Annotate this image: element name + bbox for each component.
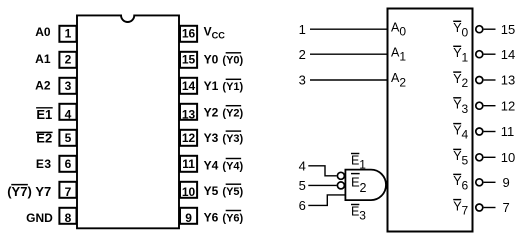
svg-text:9: 9 bbox=[503, 175, 510, 190]
svg-text:2: 2 bbox=[299, 47, 306, 62]
svg-text:2: 2 bbox=[399, 75, 406, 89]
svg-text:(Y5): (Y5) bbox=[222, 186, 243, 198]
svg-text:2: 2 bbox=[360, 181, 367, 195]
svg-text:A1: A1 bbox=[35, 52, 51, 66]
svg-text:(Y4): (Y4) bbox=[222, 160, 243, 172]
svg-text:1: 1 bbox=[65, 27, 72, 41]
svg-text:Y6: Y6 bbox=[204, 210, 219, 224]
svg-text:13: 13 bbox=[501, 73, 515, 88]
svg-text:15: 15 bbox=[182, 53, 196, 67]
svg-text:Y2: Y2 bbox=[204, 106, 219, 120]
svg-text:15: 15 bbox=[501, 22, 515, 37]
svg-text:5: 5 bbox=[65, 131, 72, 145]
svg-text:11: 11 bbox=[501, 124, 515, 139]
svg-text:3: 3 bbox=[359, 209, 366, 223]
svg-text:4: 4 bbox=[299, 159, 306, 174]
svg-text:(Y3): (Y3) bbox=[222, 133, 243, 145]
svg-text:E1: E1 bbox=[36, 107, 52, 122]
svg-text:4: 4 bbox=[462, 128, 469, 142]
svg-text:6: 6 bbox=[65, 157, 72, 171]
svg-text:8: 8 bbox=[65, 211, 72, 225]
svg-text:A2: A2 bbox=[35, 79, 51, 93]
svg-text:3: 3 bbox=[462, 102, 469, 116]
svg-text:5: 5 bbox=[299, 178, 306, 193]
svg-text:4: 4 bbox=[65, 108, 72, 122]
svg-text:12: 12 bbox=[501, 98, 515, 113]
svg-text:A0: A0 bbox=[35, 25, 51, 39]
svg-text:6: 6 bbox=[462, 178, 469, 192]
svg-text:1: 1 bbox=[462, 50, 469, 64]
svg-text:13: 13 bbox=[182, 108, 196, 122]
svg-text:7: 7 bbox=[65, 185, 72, 199]
svg-text:6: 6 bbox=[299, 198, 306, 213]
svg-text:3: 3 bbox=[299, 73, 306, 88]
svg-text:14: 14 bbox=[501, 47, 515, 62]
svg-text:14: 14 bbox=[182, 79, 196, 93]
svg-text:11: 11 bbox=[182, 157, 195, 171]
svg-text:0: 0 bbox=[462, 25, 469, 39]
svg-text:Y4: Y4 bbox=[204, 158, 219, 172]
svg-text:Y1: Y1 bbox=[204, 79, 219, 93]
svg-text:E: E bbox=[351, 204, 359, 218]
svg-text:10: 10 bbox=[182, 185, 196, 199]
svg-text:12: 12 bbox=[182, 131, 196, 145]
svg-text:16: 16 bbox=[182, 27, 196, 41]
svg-text:1: 1 bbox=[399, 50, 406, 64]
svg-text:Y0: Y0 bbox=[204, 53, 219, 67]
svg-text:7: 7 bbox=[503, 200, 510, 215]
svg-text:(Y6): (Y6) bbox=[222, 212, 243, 224]
svg-text:2: 2 bbox=[462, 76, 469, 90]
svg-text:CC: CC bbox=[212, 31, 226, 41]
svg-text:Y5: Y5 bbox=[204, 184, 219, 198]
svg-text:(Y7) Y7: (Y7) Y7 bbox=[7, 184, 51, 199]
svg-text:7: 7 bbox=[462, 204, 469, 218]
svg-text:0: 0 bbox=[399, 25, 406, 39]
svg-text:10: 10 bbox=[501, 150, 515, 165]
svg-text:E3: E3 bbox=[36, 157, 52, 171]
svg-text:(Y0): (Y0) bbox=[222, 55, 243, 67]
svg-text:(Y1): (Y1) bbox=[222, 81, 243, 93]
svg-text:2: 2 bbox=[65, 53, 72, 67]
svg-text:1: 1 bbox=[359, 158, 366, 172]
svg-text:Y3: Y3 bbox=[204, 131, 219, 145]
svg-text:3: 3 bbox=[65, 79, 72, 93]
svg-text:5: 5 bbox=[462, 153, 469, 167]
svg-text:V: V bbox=[204, 25, 212, 39]
svg-text:9: 9 bbox=[185, 211, 192, 225]
svg-text:GND: GND bbox=[26, 211, 53, 225]
svg-text:(Y2): (Y2) bbox=[222, 108, 243, 120]
svg-text:E: E bbox=[351, 153, 359, 167]
svg-text:1: 1 bbox=[299, 22, 306, 37]
